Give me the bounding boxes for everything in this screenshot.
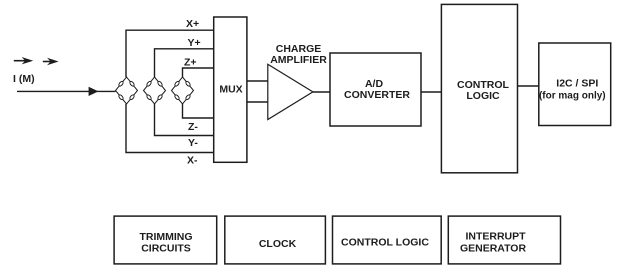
charge amplifier <box>268 43 327 120</box>
wire A/D to control logic <box>421 91 441 93</box>
bridge sensor Z <box>172 77 194 104</box>
wire control logic to I2C/SPI <box>518 85 539 87</box>
svg-text:CONVERTER: CONVERTER <box>344 89 410 101</box>
svg-text:CONTROL LOGIC: CONTROL LOGIC <box>341 237 429 249</box>
field arrow 2 <box>43 58 59 65</box>
mux MUX <box>214 17 247 162</box>
wire mux to amplifier upper <box>247 80 268 82</box>
svg-text:LOGIC: LOGIC <box>466 90 500 102</box>
block clock <box>225 216 326 264</box>
field arrow 1 <box>14 57 33 64</box>
block interrupt generator <box>448 216 560 264</box>
block trimming circuits <box>114 216 217 264</box>
wire Z- <box>183 104 214 118</box>
svg-text:I2C / SPI: I2C / SPI <box>556 78 598 90</box>
svg-text:AMPLIFIER: AMPLIFIER <box>270 54 327 66</box>
wire Y- <box>155 104 214 136</box>
wire Z+ <box>183 68 214 77</box>
wire X- <box>126 104 214 153</box>
svg-text:X-: X- <box>187 155 198 167</box>
svg-text:(for mag only): (for mag only) <box>539 91 606 102</box>
wire input with arrowhead <box>17 87 116 96</box>
block I2C / SPI <box>539 43 611 126</box>
svg-text:INTERRUPT: INTERRUPT <box>465 231 526 243</box>
svg-text:Y+: Y+ <box>188 37 201 49</box>
block A/D converter <box>330 53 421 126</box>
wire mux to amplifier lower <box>247 101 268 103</box>
bridge sensor X <box>116 77 138 104</box>
wire Y+ <box>155 49 214 77</box>
wire amplifier to A/D <box>313 91 330 93</box>
svg-text:CIRCUITS: CIRCUITS <box>141 242 191 254</box>
svg-text:Z-: Z- <box>188 121 198 133</box>
svg-text:GENERATOR: GENERATOR <box>460 243 527 255</box>
svg-text:I (M): I (M) <box>13 73 35 85</box>
svg-text:Z+: Z+ <box>184 56 197 68</box>
svg-text:CLOCK: CLOCK <box>259 238 297 250</box>
svg-text:TRIMMING: TRIMMING <box>139 231 192 243</box>
block control logic lower <box>333 216 442 264</box>
wire X+ <box>126 30 214 77</box>
block control logic <box>441 4 517 172</box>
svg-text:MUX: MUX <box>219 84 242 96</box>
svg-text:Y-: Y- <box>188 137 198 149</box>
svg-text:X+: X+ <box>186 18 199 30</box>
bridge sensor Y <box>144 77 166 104</box>
